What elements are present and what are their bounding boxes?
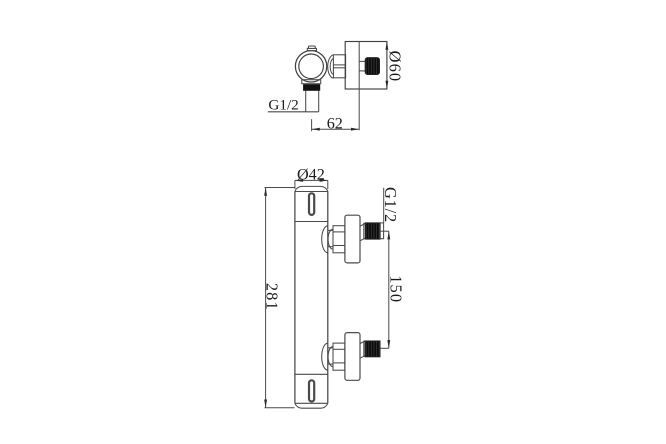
dim42 extension right: [327, 180, 329, 189]
top hex facet upper: [333, 231, 345, 233]
bar left edge: [294, 191, 296, 403]
bottom hex facet upper: [333, 348, 345, 350]
dim62 arrow left: [312, 128, 320, 131]
hex facet line upper: [333, 64, 345, 66]
dim62 extension riser: [311, 119, 313, 131]
body divider line: [358, 42, 360, 90]
bottom wall flange: [345, 333, 360, 381]
bar right edge: [327, 191, 329, 403]
top connector pipe line lower: [328, 246, 333, 248]
dim150 arrow down: [387, 340, 390, 348]
bar top cap arc: [295, 186, 328, 191]
svg-text:62: 62: [327, 114, 343, 132]
top thread stem upper: [360, 224, 365, 227]
top inlet thread: [365, 223, 380, 239]
svg-text:G1/2: G1/2: [381, 187, 400, 223]
top thread stem lower: [360, 238, 365, 241]
bottom inlet thread: [365, 341, 380, 357]
knob nub base: [307, 48, 316, 50]
dim62 line: [312, 128, 360, 130]
bottom connector pipe line lower: [328, 363, 333, 365]
svg-text:Ø60: Ø60: [385, 51, 404, 83]
svg-text:Ø42: Ø42: [297, 165, 325, 183]
top connector dome inner arc: [328, 229, 333, 249]
dim150 tick top: [380, 230, 389, 232]
bar bottom cap arc: [295, 403, 328, 408]
bar bottom cap line: [295, 402, 328, 404]
body rectangle: [345, 42, 387, 90]
outlet pipe right edge: [318, 91, 320, 112]
knob outer circle: [295, 51, 326, 82]
top slot: [309, 193, 314, 215]
divider extension line down: [358, 89, 360, 130]
dim150 tick bottom: [381, 347, 389, 349]
dim62 arrow right: [351, 128, 359, 131]
top connector pipe line upper: [328, 229, 333, 231]
bar top cap line: [295, 191, 328, 193]
hex nut (top view): [333, 55, 345, 78]
top connector hex nut: [333, 226, 345, 253]
bottom thread stem upper: [360, 341, 365, 344]
outlet black band: [303, 84, 320, 91]
G1/2 leader underline: [268, 111, 319, 113]
top thread left washer: [364, 223, 366, 238]
dim281 extension bottom: [265, 407, 295, 409]
bottom thread stem lower: [360, 356, 365, 359]
bottom connector pipe line upper: [328, 347, 333, 349]
svg-text:281: 281: [262, 283, 281, 311]
dim60 arrow down: [385, 81, 388, 89]
hex facet line lower: [333, 67, 345, 69]
dim281 arrow up: [264, 188, 267, 196]
dim150 arrow up: [387, 231, 390, 239]
dim42 line: [295, 179, 328, 181]
bottom connector hex nut: [333, 343, 345, 370]
bar section line top: [295, 221, 328, 223]
bottom thread left washer: [364, 341, 366, 356]
dim281 arrow down: [264, 400, 267, 408]
neck dome outer arc: [328, 55, 334, 78]
bottom connector dome inner arc: [328, 347, 333, 367]
outlet washer: [302, 80, 321, 84]
top connector dome outer arc: [322, 226, 328, 253]
dim42 arrow right: [320, 179, 328, 182]
svg-text:G1/2: G1/2: [268, 96, 298, 113]
bar section line bottom: [295, 373, 328, 375]
outlet pipe left edge: [305, 91, 307, 112]
G1/2 leader underline vertical: [383, 188, 385, 223]
bottom connector dome outer arc: [322, 343, 328, 370]
knob nub cap: [309, 46, 316, 49]
knurl stem lower: [359, 70, 365, 72]
bottom slot: [309, 380, 314, 401]
knob inner circle: [299, 54, 324, 79]
dim42 extension left: [294, 180, 296, 189]
top wall flange: [345, 215, 360, 263]
dim281 extension top: [265, 187, 296, 189]
dim60 arrow up: [385, 42, 388, 50]
dim42 arrow left: [295, 179, 303, 182]
knurled adjuster knob: [365, 58, 379, 75]
svg-text:150: 150: [387, 275, 406, 303]
neck dome inner arc: [330, 59, 333, 75]
top thread end washer: [380, 223, 384, 239]
top hex facet lower: [333, 245, 345, 247]
dim150 line: [388, 231, 390, 348]
bottom hex facet lower: [333, 362, 345, 364]
dim281 line: [265, 188, 267, 408]
knurl stem upper: [359, 60, 365, 62]
